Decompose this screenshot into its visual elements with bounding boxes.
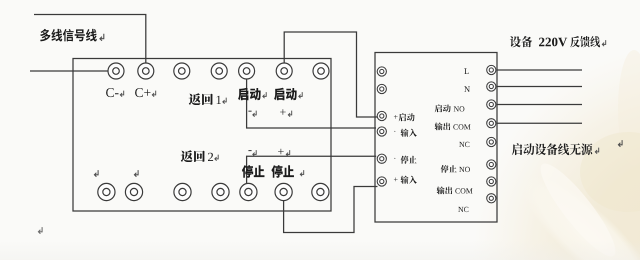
label - of stop [248,150,256,156]
label 启动设备线无源 (start device line passive) [512,143,599,155]
module pin L [487,65,496,74]
module label NC 2 [458,207,468,212]
terminal bottom 1 [98,183,115,200]
module label + 输入 [394,176,417,184]
paragraph mark above bottom terminal 2 [134,170,138,177]
relay module box (right) [375,53,497,223]
terminal top 3 [174,63,190,79]
label 启动 - (start) [238,88,266,101]
wire: stop- up and right to module stop input [247,156,377,194]
module pin stop NO [487,160,496,169]
module label · 输入 [394,129,416,137]
module pin output COM [487,119,496,128]
module label NC [459,142,469,147]
module pin stop- [377,154,386,163]
wire: multi-line signal line into C+ terminal [34,15,146,72]
module pin NC 2 [487,194,496,203]
terminal stop- [240,183,257,200]
module label 停止 NO [441,165,470,173]
label + of stop [278,149,290,157]
label 停止 - (stop) [242,165,265,178]
label 多线信号线 (multi-wire signal line) [40,29,104,42]
terminal top 4 [211,63,227,79]
module label L [464,68,469,74]
wire: L feedback [497,69,583,71]
wire: start- down and right to module input- [247,71,376,128]
wire: output COM feedback [497,122,583,124]
paragraph mark above bottom terminal 1 [94,170,98,177]
module pin input- [377,127,386,136]
module label 输出 COM 2 [437,187,473,195]
label + of start [280,109,292,117]
module pin input+ [377,177,386,186]
module label · 停止 [394,156,416,164]
terminal bottom 7 [312,183,329,200]
label C+ [135,88,156,97]
wire: N feedback [497,86,583,88]
module label +启动 [394,113,415,121]
label 返回 2 (return 2) [181,150,219,162]
terminal bottom 2 [125,183,142,200]
label 停止 + (stop) [271,165,303,178]
label - of start [248,111,256,117]
terminal stop+ [275,183,292,200]
wire: start+ up and over to module start input [284,32,378,117]
module pin start+ [377,111,386,120]
module pin N [487,82,496,91]
terminal top 7 [313,63,329,79]
label C- [106,88,124,97]
terminal C- [108,63,124,79]
module label 输出 COM [435,123,471,131]
wire: start NO feedback [497,104,583,106]
terminal bottom 3 [174,183,191,200]
module pin left 2 [377,84,386,93]
multi-line control panel box (left) [73,59,331,212]
terminal C+ [138,63,154,79]
paragraph mark bottom left [38,227,42,234]
module label N [464,86,470,92]
module pin start NO [487,100,496,109]
terminal bottom 4 [212,183,229,200]
label 返回 1 (return 1) [189,93,227,105]
wire: stop+ down and around to module input+ [284,187,378,233]
module pin output COM 2 [487,177,496,186]
terminal start+ [276,63,292,79]
label 设备 220V 反馈线 (device 220V feedback line) [510,36,606,47]
module pin NC [487,137,496,146]
terminal start- [239,63,255,79]
paragraph mark right of passive label [618,140,622,147]
wire: C- terminal lead going left [30,70,114,72]
label 启动 + (start) [274,88,302,101]
module label 启动 NO [435,105,465,113]
module pin left 1 [377,67,386,76]
